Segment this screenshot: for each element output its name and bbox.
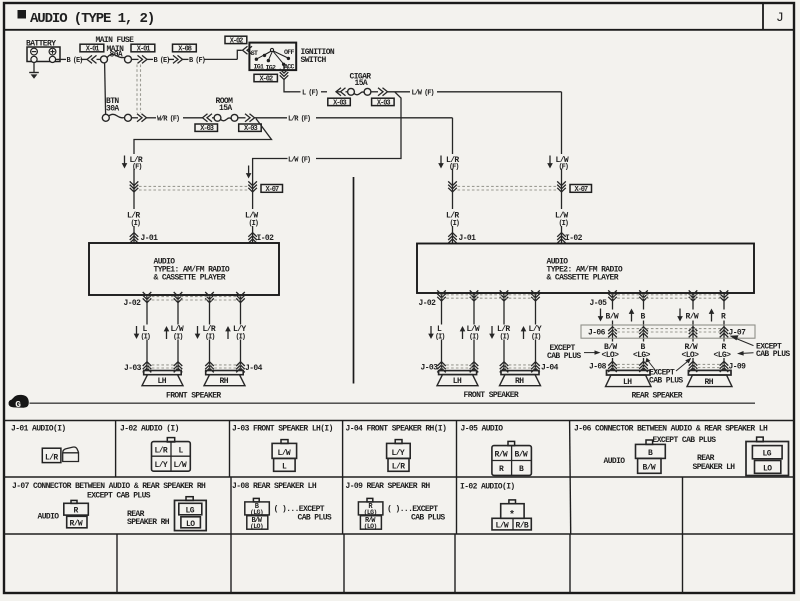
svg-text:R/W: R/W xyxy=(70,520,83,529)
connector X-01 dashed pair line xyxy=(137,65,141,114)
svg-text:L/W: L/W xyxy=(174,461,187,470)
svg-text:MAIN FUSE: MAIN FUSE xyxy=(96,36,135,45)
svg-text:J-09 REAR SPEAKER RH: J-09 REAR SPEAKER RH xyxy=(346,482,431,491)
svg-text:(I): (I) xyxy=(131,220,141,228)
svg-text:J-05 AUDIO: J-05 AUDIO xyxy=(461,425,504,434)
svg-text:L (F): L (F) xyxy=(302,90,319,98)
fuse CIGAR 15A xyxy=(346,88,379,95)
battery xyxy=(26,40,60,63)
svg-text:AUDIO: AUDIO xyxy=(38,512,60,521)
svg-text:J-04 FRONT SPEAKER RH(I): J-04 FRONT SPEAKER RH(I) xyxy=(346,425,447,434)
svg-text:(I): (I) xyxy=(469,333,479,341)
svg-text:J-04: J-04 xyxy=(245,364,263,373)
svg-text:LO: LO xyxy=(186,520,195,529)
svg-text:AUDIO: AUDIO xyxy=(604,457,626,466)
svg-text:RH: RH xyxy=(515,377,524,386)
svg-text:<LG>: <LG> xyxy=(633,351,651,360)
svg-text:EXCEPT CAB PLUS: EXCEPT CAB PLUS xyxy=(87,491,151,500)
svg-text:L/W: L/W xyxy=(496,522,509,531)
svg-text:FRONT SPEAKER: FRONT SPEAKER xyxy=(166,391,221,400)
svg-text:J-05: J-05 xyxy=(590,299,608,308)
cell J-08 REAR SPEAKER LH xyxy=(232,482,332,530)
connector X-01 chevron right xyxy=(138,55,148,63)
audio unit type1 box xyxy=(89,243,279,295)
svg-text:L/R: L/R xyxy=(45,454,58,463)
connector J-06 J-07 box xyxy=(581,325,755,338)
connector J-04 right xyxy=(500,362,559,373)
svg-text:EXCEPT CAB PLUS: EXCEPT CAB PLUS xyxy=(653,436,717,445)
svg-text:J-03: J-03 xyxy=(421,363,439,372)
label L/R(F) left feed with arrow xyxy=(122,156,143,172)
svg-text:G: G xyxy=(15,399,21,410)
svg-text:J-04: J-04 xyxy=(541,363,559,372)
label box X-03 cigar right xyxy=(372,98,395,107)
connector I-02 right xyxy=(557,233,582,244)
svg-text:X-03: X-03 xyxy=(200,125,213,133)
svg-text:B/W: B/W xyxy=(643,463,656,472)
svg-text:15A: 15A xyxy=(219,104,232,113)
fuse BTN 30A xyxy=(102,114,131,121)
svg-text:B (F): B (F) xyxy=(189,57,206,65)
wire label R xyxy=(709,309,726,322)
svg-text:X-03: X-03 xyxy=(377,99,390,107)
svg-text:L/R: L/R xyxy=(155,446,168,455)
svg-text:(I): (I) xyxy=(500,333,510,341)
svg-text:CAB PLUS: CAB PLUS xyxy=(411,514,445,523)
front speaker RH right xyxy=(500,371,541,386)
cell I-02 AUDIO(I) xyxy=(460,483,531,531)
svg-text:ACC: ACC xyxy=(284,64,295,71)
front speaker LH left xyxy=(142,371,183,386)
label L/R(I) left xyxy=(127,212,141,228)
ground reference line G xyxy=(30,402,756,404)
connector X-02 chevron entry xyxy=(243,46,253,54)
wire from main fuse down to BTN fuse xyxy=(105,63,106,115)
connector J-08 xyxy=(589,361,648,372)
wire branch L/R to left unit xyxy=(134,119,272,154)
svg-text:J-02: J-02 xyxy=(124,299,142,308)
svg-text:SPEAKER RH: SPEAKER RH xyxy=(127,518,170,527)
rear speaker wires xyxy=(613,293,725,370)
cell J-02 AUDIO(I) xyxy=(120,425,190,472)
connector X-01 chevron left xyxy=(87,55,97,63)
svg-text:R/B: R/B xyxy=(516,522,529,531)
table grid xyxy=(4,421,794,594)
wire B(E) battery to main fuse xyxy=(56,58,101,60)
label box X-03 cigar left xyxy=(328,98,351,107)
svg-text:B (E): B (E) xyxy=(67,57,84,65)
label box X-01 xyxy=(80,44,104,53)
wire label B/W xyxy=(598,309,619,322)
svg-text:X-02: X-02 xyxy=(260,76,273,84)
svg-text:J-08 REAR SPEAKER LH: J-08 REAR SPEAKER LH xyxy=(232,482,317,491)
svg-text:J-06: J-06 xyxy=(588,328,606,337)
connector J-01 right xyxy=(448,233,476,244)
connector J-05 row xyxy=(590,290,729,307)
svg-text:J-01: J-01 xyxy=(459,234,477,243)
svg-text:R/W: R/W xyxy=(686,313,699,322)
svg-text:X-01: X-01 xyxy=(86,46,99,54)
svg-text:J-01 AUDIO(I): J-01 AUDIO(I) xyxy=(11,425,66,434)
wire branch L/W to left unit xyxy=(253,92,401,243)
svg-text:30A: 30A xyxy=(106,104,119,113)
svg-text:(I): (I) xyxy=(173,333,183,341)
cell J-07 CONNECTOR BETWEEN AUDIO & REAR SPEAKER RH xyxy=(12,482,206,530)
svg-text:CAB PLUS: CAB PLUS xyxy=(298,514,332,523)
arrow on L/W branch wire xyxy=(246,166,252,179)
rear speaker RH xyxy=(687,370,732,386)
svg-text:(LO): (LO) xyxy=(250,523,263,530)
label box X-02 bottom xyxy=(254,74,277,83)
svg-text:REAR: REAR xyxy=(697,454,715,463)
svg-text:(F): (F) xyxy=(559,163,569,171)
cell J-03 FRONT SPEAKER LH(I) xyxy=(232,425,333,472)
svg-text:LG: LG xyxy=(186,506,195,515)
connector X-03 chevron right of cigar fuse xyxy=(378,88,388,96)
svg-text:(I): (I) xyxy=(141,333,151,341)
svg-text:*: * xyxy=(509,510,515,522)
connector J-04 left xyxy=(205,362,262,373)
svg-text:I-02: I-02 xyxy=(257,234,275,243)
fuse MAIN 80A xyxy=(101,54,132,63)
svg-text:B/W: B/W xyxy=(606,313,619,322)
svg-text:CAB PLUS: CAB PLUS xyxy=(649,376,683,385)
label L/W(I) right xyxy=(555,212,569,228)
svg-text:R/W: R/W xyxy=(495,451,508,460)
svg-text:(I): (I) xyxy=(531,333,541,341)
svg-text:J-08: J-08 xyxy=(589,363,607,372)
svg-text:X-03: X-03 xyxy=(333,99,346,107)
svg-text:L/R: L/R xyxy=(392,463,405,472)
wire label L(I) right xyxy=(428,325,445,341)
svg-text:I-02 AUDIO(I): I-02 AUDIO(I) xyxy=(460,483,515,492)
svg-text:J-03 FRONT SPEAKER LH(I): J-03 FRONT SPEAKER LH(I) xyxy=(232,425,333,434)
wire W/R(F) xyxy=(132,117,203,119)
label L/W(F) right feed with arrow xyxy=(547,156,569,172)
ignition switch U1 xyxy=(249,43,296,72)
label L/R(I) right xyxy=(446,212,460,228)
wire label L/R(I) right xyxy=(489,325,510,341)
svg-text:& CASSETTE PLAYER: & CASSETTE PLAYER xyxy=(547,274,619,283)
header separator line xyxy=(4,29,794,31)
note EXCEPT CAB PLUS centre xyxy=(645,358,691,386)
label box X-01 second xyxy=(131,44,155,53)
svg-text:L/W: L/W xyxy=(278,449,291,458)
wire label B LG xyxy=(633,343,651,360)
connector X-08 chevron xyxy=(173,55,183,63)
label IGNITION SWITCH xyxy=(301,48,335,65)
label L/R(F) right feed with arrow xyxy=(438,156,459,172)
label box X-07 right xyxy=(570,185,592,195)
connector X-03 chevron left of cigar fuse xyxy=(336,88,346,96)
svg-text:SWITCH: SWITCH xyxy=(301,56,327,65)
svg-text:J-03: J-03 xyxy=(124,364,142,373)
wire label B xyxy=(629,309,646,322)
note EXCEPT CAB PLUS left xyxy=(547,344,601,361)
svg-text:(I): (I) xyxy=(435,333,445,341)
svg-text:L/W (F): L/W (F) xyxy=(412,90,435,98)
svg-text:LO: LO xyxy=(763,464,772,473)
label box X-02 top xyxy=(225,36,247,45)
svg-text:ST: ST xyxy=(251,50,258,57)
svg-text:X-01: X-01 xyxy=(137,46,150,54)
wire after main fuse xyxy=(132,58,139,60)
svg-text:CAB PLUS: CAB PLUS xyxy=(756,350,790,359)
cell J-09 REAR SPEAKER RH xyxy=(346,482,446,530)
fuse ROOM 15A xyxy=(212,114,246,121)
connector X-02 chevron below ignition xyxy=(280,69,289,80)
wire label L/W(I) xyxy=(164,325,184,341)
wire L/R(F) to right unit xyxy=(255,118,453,243)
connector I-02 left xyxy=(248,233,274,244)
connector J-03 right xyxy=(421,362,479,373)
wire label R/W xyxy=(677,309,699,322)
cell J-01 AUDIO(I) xyxy=(11,425,79,463)
connector X-07 right pair xyxy=(448,181,566,192)
front speaker LH right xyxy=(437,371,478,386)
svg-text:X-07: X-07 xyxy=(575,186,588,194)
label box X-03 room left xyxy=(195,124,218,133)
svg-text:SPEAKER LH: SPEAKER LH xyxy=(693,463,736,472)
svg-text:J-02: J-02 xyxy=(419,299,437,308)
svg-text:X-03: X-03 xyxy=(244,125,257,133)
label box X-07 left xyxy=(261,185,283,195)
connector X-03 chevron left of room fuse xyxy=(203,114,213,122)
wire label L/Y(I) xyxy=(225,325,246,341)
cell J-06 CONNECTOR BETWEEN AUDIO & REAR SPEAKER LH xyxy=(574,425,789,476)
page letter box divider (J box) xyxy=(762,3,764,30)
connector J-09 xyxy=(689,361,746,372)
svg-text:(I): (I) xyxy=(205,333,215,341)
cell J-05 AUDIO xyxy=(461,425,532,476)
svg-text:(I): (I) xyxy=(249,220,259,228)
note EXCEPT CAB PLUS right xyxy=(730,335,791,359)
svg-text:X-02: X-02 xyxy=(230,37,243,45)
wire label L/W(I) right xyxy=(460,325,480,341)
rear speaker LH xyxy=(606,370,652,386)
label box X-03 room right xyxy=(239,124,262,133)
wire label R LG xyxy=(714,343,732,360)
svg-text:(I): (I) xyxy=(559,220,569,228)
connector J-02 right row xyxy=(419,290,540,307)
svg-text:B (E): B (E) xyxy=(154,57,171,65)
header title block square xyxy=(18,10,27,19)
svg-text:(I): (I) xyxy=(236,333,246,341)
svg-text:LH: LH xyxy=(453,377,462,386)
svg-text:J-01: J-01 xyxy=(141,234,159,243)
svg-text:(LO): (LO) xyxy=(364,523,377,530)
svg-text:15A: 15A xyxy=(355,79,368,88)
svg-text:LH: LH xyxy=(623,378,632,387)
svg-text:IG1: IG1 xyxy=(254,64,265,71)
wire B(E) segment 2 xyxy=(147,58,174,60)
svg-text:J-06 CONNECTOR BETWEEN AUDIO &: J-06 CONNECTOR BETWEEN AUDIO & REAR SPEA… xyxy=(574,425,768,434)
connector X-03 chevron right of room fuse xyxy=(245,114,255,122)
svg-text:W/R (F): W/R (F) xyxy=(157,116,180,124)
wire label L/R(I) xyxy=(195,325,216,341)
svg-text:OFF: OFF xyxy=(284,49,295,56)
cell J-04 FRONT SPEAKER RH(I) xyxy=(346,425,447,472)
wire label B/W LO xyxy=(602,343,620,360)
right unit front speaker wires xyxy=(442,293,536,370)
svg-text:(F): (F) xyxy=(449,163,459,171)
wire L(F) from ignition to cigar fuse xyxy=(284,80,340,92)
front speaker RH left xyxy=(204,371,245,386)
svg-text:LH: LH xyxy=(158,377,167,386)
central divider line xyxy=(353,177,355,384)
svg-text:<LO>: <LO> xyxy=(602,351,620,360)
svg-text:IG2: IG2 xyxy=(266,64,277,71)
svg-text:X-07: X-07 xyxy=(266,186,279,194)
ground xyxy=(29,63,39,79)
svg-text:L/W (F): L/W (F) xyxy=(288,156,311,164)
connector J-01 left xyxy=(130,233,158,244)
connector X-07 left pair xyxy=(130,181,257,192)
audio unit type2 box xyxy=(417,244,754,294)
svg-text:LG: LG xyxy=(763,450,772,459)
svg-text:FRONT SPEAKER: FRONT SPEAKER xyxy=(464,391,519,400)
svg-text:J-02 AUDIO (I): J-02 AUDIO (I) xyxy=(120,425,179,434)
label box X-08 xyxy=(173,44,197,53)
label L/W(I) left xyxy=(245,212,259,228)
wire label L(I) xyxy=(134,325,151,341)
svg-text:& CASSETTE PLAYER: & CASSETTE PLAYER xyxy=(154,274,226,283)
ground G icon xyxy=(8,395,28,410)
svg-text:X-08: X-08 xyxy=(178,46,191,54)
svg-text:REAR SPEAKER: REAR SPEAKER xyxy=(632,392,683,401)
connector X-01 chevron on W/R xyxy=(137,114,147,122)
svg-text:J: J xyxy=(776,10,784,25)
svg-text:I-02: I-02 xyxy=(565,234,583,243)
svg-text:RH: RH xyxy=(705,378,714,387)
svg-text:L/Y: L/Y xyxy=(155,461,168,470)
connector J-03 left xyxy=(124,362,182,373)
svg-text:(I): (I) xyxy=(450,220,460,228)
svg-text:AUDIO (TYPE 1, 2): AUDIO (TYPE 1, 2) xyxy=(30,11,154,27)
wire L/W(F) cigar fuse to right unit xyxy=(388,92,562,244)
svg-text:L/Y: L/Y xyxy=(392,449,405,458)
svg-text:B/W: B/W xyxy=(515,451,528,460)
wire B(F) to ignition switch xyxy=(183,50,242,59)
svg-text:J-07 CONNECTOR BETWEEN AUDIO &: J-07 CONNECTOR BETWEEN AUDIO & REAR SPEA… xyxy=(12,482,206,491)
svg-text:L/R (F): L/R (F) xyxy=(288,116,311,124)
svg-text:(F): (F) xyxy=(132,163,142,171)
left unit speaker wires xyxy=(147,295,241,371)
connector J-02 left row xyxy=(124,292,245,308)
svg-text:RH: RH xyxy=(220,377,229,386)
wire label R/W LO xyxy=(682,343,700,360)
svg-text:CAB PLUS: CAB PLUS xyxy=(547,352,581,361)
wire label L/Y(I) right xyxy=(521,325,542,341)
svg-text:<LG>: <LG> xyxy=(714,351,732,360)
